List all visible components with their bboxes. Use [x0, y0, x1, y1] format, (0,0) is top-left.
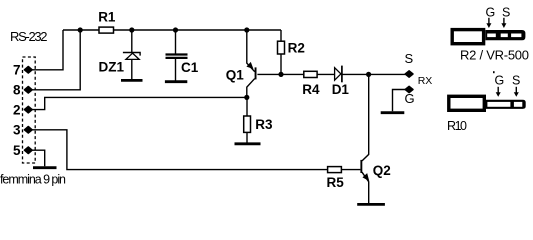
node DZ1 junction — [129, 27, 134, 32]
pin 8 contact — [24, 87, 32, 94]
node C1 junction — [173, 27, 178, 32]
svg-text:R2 / VR-500: R2 / VR-500 — [460, 48, 529, 63]
diode D1 triangle — [335, 68, 341, 81]
transistor Q2 emitter lead — [362, 172, 369, 203]
resistor R2 — [278, 41, 285, 54]
node Q2 collector junction — [366, 72, 371, 77]
pin 2 contact — [24, 106, 32, 113]
svg-text:5: 5 — [13, 143, 21, 158]
svg-text:2: 2 — [13, 102, 21, 117]
svg-text:femmina 9 pin: femmina 9 pin — [0, 173, 66, 187]
wire R2 bottom lead — [280, 54, 282, 74]
svg-text:R1: R1 — [98, 10, 116, 25]
svg-text:S: S — [502, 6, 510, 20]
wire C1 top lead — [175, 30, 177, 55]
wire R4 to D1 — [317, 73, 335, 75]
wire top rail right segment — [114, 29, 282, 31]
transistor Q2 emitter arrow — [363, 174, 368, 180]
svg-text:G: G — [495, 74, 505, 88]
resistor R3 — [244, 116, 251, 132]
arrow S top plug — [503, 18, 505, 24]
wire R5 to Q2 base — [341, 169, 360, 171]
transistor Q2 base bar — [360, 160, 362, 173]
wire top rail left segment — [63, 29, 99, 31]
svg-text:7: 7 — [13, 63, 21, 78]
diode D1 cathode bar — [341, 66, 343, 83]
capacitor C1 bottom plate — [166, 57, 188, 59]
pin S contact — [405, 71, 413, 77]
plug shaft top (R2/VR-500) — [485, 30, 525, 40]
transistor Q1 collector lead — [247, 79, 255, 98]
wire Q1 emitter lead — [247, 30, 255, 72]
plug shaft bottom (R10) — [486, 100, 526, 109]
node Q1 collector junction — [244, 95, 249, 100]
connector J1 DB9 dashed body — [23, 57, 36, 163]
node Q1 emitter junction — [244, 27, 249, 32]
zener diode DZ1 triangle — [126, 53, 139, 59]
plug body bottom (R10) — [449, 96, 485, 110]
svg-text:3: 3 — [13, 123, 21, 138]
svg-text:R5: R5 — [327, 175, 345, 190]
wire top rail to R2 — [280, 30, 282, 41]
wire Q2 collector lead — [362, 74, 369, 160]
resistor R5 — [328, 167, 342, 173]
wire Q1 base to R4 — [257, 73, 303, 75]
svg-text:RX: RX — [418, 75, 433, 87]
wire pin3 to R5 — [32, 130, 328, 170]
wire G pin to ground — [393, 90, 406, 112]
svg-text:R4: R4 — [302, 82, 320, 97]
ground G pin — [381, 111, 405, 114]
stray mark above G — [493, 71, 495, 73]
resistor R4 — [304, 71, 317, 77]
svg-text:C1: C1 — [181, 60, 199, 75]
ground R3 — [235, 142, 261, 145]
wire DZ1 bottom lead — [131, 59, 133, 79]
pin 3 contact — [24, 127, 32, 134]
zener diode DZ1 cathode bar — [123, 53, 140, 56]
ground C1 — [165, 80, 187, 83]
svg-text:Q2: Q2 — [373, 163, 391, 178]
arrow G bottom plug — [497, 87, 499, 93]
svg-text:G: G — [405, 91, 415, 106]
node R2/base junction — [278, 72, 283, 77]
wire R3 top lead — [246, 97, 248, 116]
svg-text:R3: R3 — [255, 117, 273, 132]
svg-text:8: 8 — [13, 83, 21, 98]
wire C1 bottom lead — [175, 58, 177, 81]
svg-text:R2: R2 — [288, 40, 305, 55]
node pin8 junction — [78, 27, 83, 32]
svg-text:G: G — [486, 6, 496, 20]
svg-text:S: S — [512, 74, 520, 88]
svg-text:DZ1: DZ1 — [99, 60, 125, 75]
capacitor C1 top plate — [166, 53, 188, 55]
pin 5 contact — [24, 147, 32, 154]
pin G contact — [405, 86, 413, 92]
resistor R1 — [99, 27, 114, 33]
wire D1 to S pin — [342, 73, 406, 75]
arrow G top plug — [488, 18, 490, 24]
svg-text:D1: D1 — [332, 82, 350, 97]
wire DZ1 top lead — [131, 30, 133, 53]
svg-text:R10: R10 — [447, 119, 467, 133]
ground pin5 — [33, 166, 57, 169]
wire pin2 to Q1 collector — [32, 97, 247, 109]
wire pin7 to top rail — [32, 30, 63, 70]
svg-text:S: S — [405, 51, 414, 66]
wire pin5 to ground — [32, 150, 45, 166]
wire pin8 to top rail — [32, 30, 80, 90]
ground DZ1 — [121, 79, 143, 82]
svg-text:RS-232: RS-232 — [10, 29, 48, 44]
arrow S bottom plug — [515, 87, 517, 93]
transistor Q1 emitter arrow — [247, 63, 252, 68]
transistor Q1 base bar — [255, 67, 257, 79]
ground Q2 — [357, 203, 385, 206]
svg-text:Q1: Q1 — [226, 68, 245, 83]
plug body top (R2/VR-500) — [452, 30, 483, 44]
pin 7 contact — [24, 67, 32, 74]
wire R3 bottom lead — [246, 132, 248, 142]
